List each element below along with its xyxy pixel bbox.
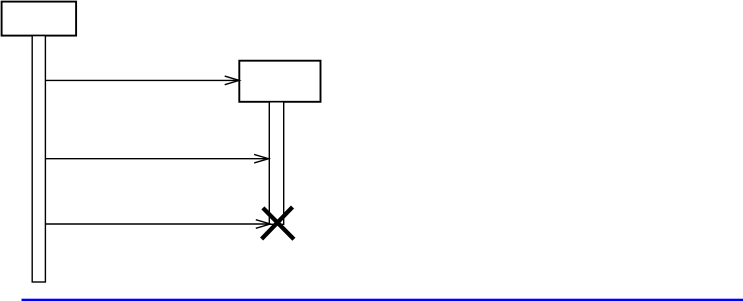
message arrow 1 (create message, wire) — [45, 76, 239, 85]
message arrow 2 (wire) — [45, 154, 268, 163]
activation bar 1 (under object 1) — [32, 36, 45, 282]
footer rule (blue separator line) — [22, 299, 743, 301]
activation bar 2 (under object 2) — [269, 102, 283, 225]
object box 2 (lifeline head, created object) — [239, 61, 320, 102]
message arrow 3 (destroy message, wire) — [45, 220, 270, 229]
destruction X marker (end of lifeline 2) — [262, 207, 294, 239]
object box 1 (lifeline head, top-left) — [2, 2, 77, 36]
